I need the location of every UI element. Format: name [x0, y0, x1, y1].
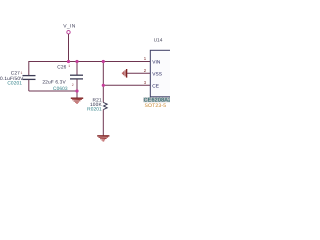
svg-text:1: 1: [21, 71, 23, 75]
svg-text:U14: U14: [154, 37, 163, 43]
svg-text:R0201: R0201: [87, 107, 102, 113]
svg-text:C0201: C0201: [7, 81, 22, 87]
ground under C26: [71, 98, 83, 103]
svg-text:VSS: VSS: [152, 71, 162, 77]
U14 pin label CE: [152, 83, 159, 89]
ground under R21: [97, 136, 109, 141]
C26 value label: [42, 79, 66, 85]
junction CE wire / R21 branch: [102, 84, 105, 87]
svg-text:SOT23-5: SOT23-5: [145, 103, 167, 109]
junction C26 / rail: [75, 60, 78, 63]
wire: left rail down to C27: [28, 61, 30, 75]
resistor R21 zigzag: [103, 102, 107, 109]
C27 value label: [0, 76, 24, 82]
junction bottom wire / C26 ground node: [75, 89, 78, 92]
port circle V_IN: [67, 31, 70, 34]
svg-text:VIN: VIN: [152, 59, 161, 65]
C26 reference designator: [57, 65, 66, 71]
wire: main horizontal rail to U14 pin 1: [29, 61, 151, 63]
net label V_IN: [63, 24, 76, 30]
C27 pin number 1: [21, 71, 23, 75]
svg-text:2: 2: [72, 83, 74, 87]
svg-text:C0603: C0603: [53, 86, 68, 92]
wire: bottom horizontal to C26 ground node: [29, 90, 77, 92]
wire: C26 bottom through junction to ground: [76, 79, 78, 97]
wire: R21 branch down from rail: [102, 62, 104, 103]
C26 package label C0603: [53, 86, 68, 92]
svg-text:C26: C26: [57, 65, 66, 71]
R21 value label: [90, 102, 102, 108]
R21 package label R0201: [87, 107, 102, 113]
capacitor C26 plates: [70, 75, 83, 79]
svg-text:V_IN: V_IN: [63, 24, 76, 30]
U14 pin label VSS: [152, 71, 162, 77]
C27 reference designator: [11, 70, 20, 76]
wire from V_IN port down to main rail: [68, 34, 70, 62]
R21 reference designator: [93, 98, 102, 104]
ground at U14 VSS pin (rotated left): [122, 69, 126, 78]
U14 pin 1 number: [144, 56, 147, 61]
junction V_IN / rail: [67, 60, 70, 63]
C26 pin number 1: [68, 64, 70, 68]
wire: CE pin wire from R21 branch to U14 pin 3: [103, 84, 150, 86]
U14 chip body: [150, 50, 172, 97]
U14 pin 2 number: [144, 68, 147, 73]
junction R21 branch / rail: [102, 60, 105, 63]
capacitor C27 plates: [23, 76, 36, 80]
wire: C26 branch from rail: [76, 62, 78, 76]
wire: C27 bottom to lower-left corner: [28, 80, 30, 91]
U14 pin 3 number: [144, 80, 147, 85]
svg-text:CE: CE: [152, 83, 159, 89]
U14 reference designator: [154, 37, 163, 43]
svg-text:1: 1: [68, 64, 70, 68]
U14 pin label VIN: [152, 59, 161, 65]
wire: R21 bottom to ground: [102, 110, 104, 136]
U14 package SOT23: [145, 103, 167, 109]
U14 part number CE6208: [143, 97, 171, 103]
C27 package label C0201: [7, 81, 22, 87]
C26 pin number 2: [72, 83, 74, 87]
wire: VSS stub to U14 pin 2: [127, 72, 150, 74]
svg-text:22uF 6.3V: 22uF 6.3V: [42, 79, 66, 85]
svg-text:C27: C27: [11, 70, 20, 76]
